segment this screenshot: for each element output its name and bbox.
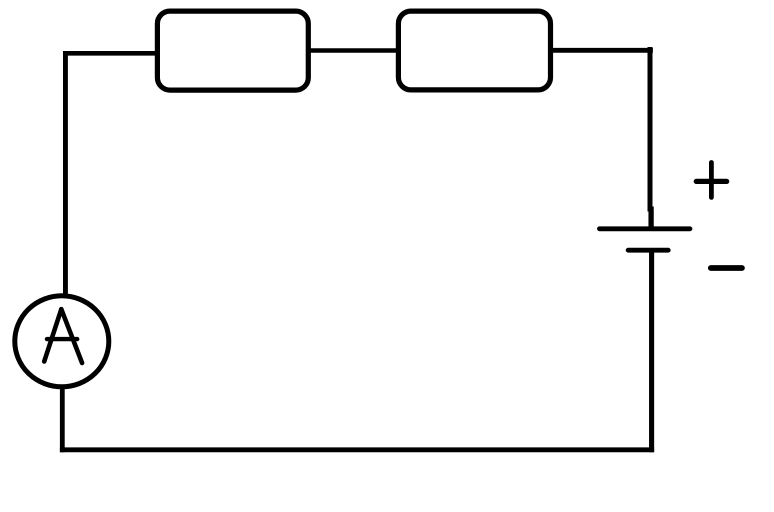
wire bottom horizontal xyxy=(60,447,654,452)
resistor R1 (left rounded box) xyxy=(157,11,308,90)
resistor R2 (right rounded box) xyxy=(398,11,550,90)
minus label xyxy=(711,265,742,271)
plus label horizontal stroke xyxy=(696,179,726,184)
wire right vertical lower (battery to bottom-right corner) xyxy=(649,252,654,453)
ammeter letter A right leg xyxy=(61,309,82,363)
ammeter letter A crossbar xyxy=(47,337,77,341)
battery BT1 positive plate (long) xyxy=(600,226,690,231)
wire left vertical (ammeter to top-left corner) xyxy=(63,51,68,296)
wire top-left horizontal (corner to resistor R1) xyxy=(63,51,155,56)
wire between R1 and R2 xyxy=(308,48,399,52)
wire left vertical lower (bottom wire up to ammeter) xyxy=(60,387,65,452)
plus label vertical stroke xyxy=(709,163,714,198)
ammeter letter A left leg xyxy=(44,309,61,361)
ammeter M1 circle xyxy=(15,296,109,387)
wire jog segment above battery plate xyxy=(648,207,653,230)
wire right vertical upper (corner down to battery) xyxy=(648,47,653,212)
wire R2 to top-right corner xyxy=(551,48,653,53)
battery BT1 negative plate (short) xyxy=(628,248,668,253)
